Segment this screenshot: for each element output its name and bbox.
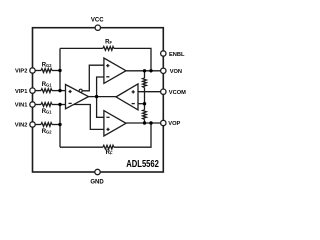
wire RG2 to node — [52, 70, 60, 72]
wire RG2 to node — [52, 124, 60, 126]
pin VCC — [95, 25, 100, 30]
wire summing node vertical (top) — [59, 48, 61, 90]
pin VOP — [161, 120, 166, 125]
junction node A1 output — [95, 95, 98, 98]
plus marker A1 — [69, 90, 72, 93]
pin GND — [95, 169, 100, 174]
wire RG1 to node / A1 + input — [52, 90, 66, 92]
svg-text:ADL5562: ADL5562 — [126, 159, 159, 170]
wire A2 output to VON — [126, 70, 161, 72]
wire VIN1 lead — [35, 104, 41, 106]
inverting output bubble on A1 top slope — [79, 89, 82, 92]
resistor RF (top) — [103, 47, 114, 51]
pin VIP2 — [30, 68, 35, 73]
plus marker A2 — [106, 64, 109, 67]
resistor RG1 (bottom) — [41, 103, 52, 107]
resistor RG2 (top) — [41, 69, 52, 73]
svg-text:VIN2: VIN2 — [15, 123, 28, 129]
resistor output ladder lower — [143, 110, 147, 120]
pin ENBL — [161, 51, 166, 56]
op-amp A1 input stage — [66, 85, 89, 109]
junction node RG1/VIN1 — [58, 103, 61, 106]
chip boundary box ADL5562 — [33, 28, 164, 172]
wire feedback RF top right segment — [114, 48, 151, 70]
svg-text:VIP1: VIP1 — [15, 89, 27, 95]
op-amp A4 output driver (VOP) — [104, 111, 126, 136]
svg-text:RF: RF — [105, 40, 112, 46]
wire ladder top segment — [144, 71, 146, 78]
pin VIP1 — [30, 88, 35, 93]
junction VON/ladder — [143, 69, 146, 72]
wire feedback RF bottom left segment — [60, 146, 103, 148]
wire node to A3 output — [97, 96, 116, 98]
op-amp A3 common-mode feedback (points left) — [116, 84, 138, 110]
pin VON — [161, 68, 166, 73]
svg-text:VOP: VOP — [168, 121, 180, 127]
svg-text:VCOM: VCOM — [169, 90, 186, 96]
resistor RG2 (bottom) — [41, 123, 52, 127]
svg-text:RG1: RG1 — [42, 109, 53, 115]
wire A3 - input to ladder midpoint — [138, 103, 145, 105]
svg-text:RG1: RG1 — [42, 82, 53, 88]
minus marker A3 — [132, 103, 135, 105]
minus marker A2 — [106, 76, 109, 78]
wire A1 bottom tap to A4 + input — [74, 105, 104, 130]
plus marker A3 — [132, 90, 135, 93]
wire A1 output to node — [89, 96, 97, 98]
minus marker A4 — [106, 116, 109, 118]
wire ladder bottom segment — [144, 119, 146, 123]
op-amp A2 output driver (VON) — [104, 58, 126, 83]
wire A1 bubble to A2 + input — [82, 65, 104, 91]
resistor output ladder upper — [143, 78, 147, 88]
pin VIN2 — [30, 122, 35, 127]
junction VOP/RF — [149, 121, 152, 124]
svg-text:RG2: RG2 — [42, 62, 53, 68]
junction node RG1/VIP1 — [58, 89, 61, 92]
wire A4 output to VOP — [126, 122, 161, 124]
junction node RG2/VIP2 — [58, 69, 61, 72]
resistor RF (bottom) — [103, 145, 114, 149]
svg-text:RF: RF — [106, 150, 113, 156]
wire summing node vertical (bottom) — [59, 105, 61, 148]
wire ladder middle segment — [144, 88, 146, 110]
wire VCOM to A3 + input — [138, 91, 161, 93]
junction ladder midpoint — [143, 102, 146, 105]
wire VIP2 lead — [35, 70, 41, 72]
svg-text:VIN1: VIN1 — [15, 103, 28, 109]
svg-text:VON: VON — [170, 69, 182, 75]
svg-text:ENBL: ENBL — [169, 52, 185, 58]
junction VOP/ladder — [143, 121, 146, 124]
wire feedback RF top left segment — [60, 47, 103, 49]
plus marker A4 — [106, 128, 109, 131]
svg-text:VCC: VCC — [91, 17, 104, 23]
wire node down to A4 - input — [97, 97, 104, 118]
junction node RG2/VIN2 — [58, 123, 61, 126]
wire node up to A2 - input — [97, 77, 104, 97]
wire RG1 to node / A1 - input — [52, 104, 66, 106]
resistor RG1 (top) — [41, 89, 52, 93]
svg-text:GND: GND — [90, 179, 104, 185]
wire feedback RF bottom right segment — [114, 123, 151, 147]
minus marker A1 — [69, 102, 72, 104]
wire VIN2 lead — [35, 124, 41, 126]
pin VIN1 — [30, 102, 35, 107]
svg-text:RG2: RG2 — [42, 129, 53, 135]
pin VCOM — [161, 89, 166, 94]
svg-text:VIP2: VIP2 — [15, 68, 27, 74]
junction VON/RF — [149, 69, 152, 72]
wire VIP1 lead — [35, 90, 41, 92]
